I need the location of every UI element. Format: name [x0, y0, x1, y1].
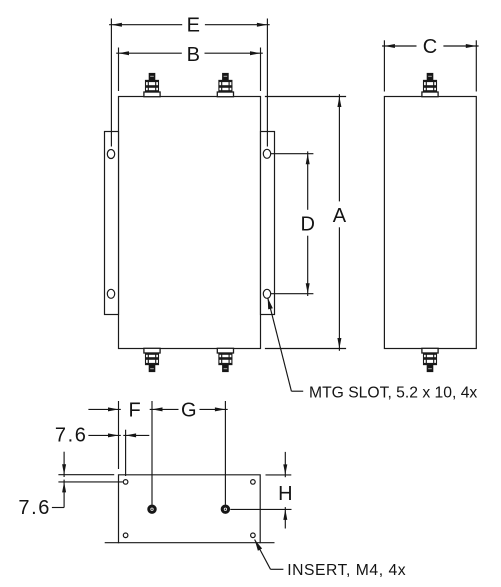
mtg slot top-right — [263, 149, 270, 158]
dimension 7.6 horizontal arrow right — [126, 433, 137, 437]
dimension C line — [382, 45, 416, 47]
dimension A extension line top — [265, 96, 346, 98]
dimension 7.6 horizontal tail left — [88, 434, 120, 436]
dimension B extension line right — [260, 48, 262, 92]
dimension 7.6 vertical extension line bottom (hole centerline) — [58, 481, 123, 483]
insert hole top-left — [123, 480, 128, 485]
mtg slot bottom-right — [263, 289, 270, 298]
dimension E extension line right — [266, 19, 268, 147]
svg-text:INSERT, M4, 4x: INSERT, M4, 4x — [287, 562, 406, 579]
svg-text:B: B — [187, 44, 200, 66]
svg-text:7.6: 7.6 — [18, 497, 51, 519]
mtg slot top-left — [107, 150, 114, 159]
dimension F tail line — [88, 408, 120, 410]
dimension B arrow left — [119, 51, 130, 55]
svg-text:E: E — [187, 15, 200, 37]
bottom view body outline — [119, 475, 261, 543]
dimension G extension line right (stud centerline) — [224, 401, 226, 505]
dimension 7.6 horizontal extension line (hole centerline) — [125, 430, 127, 476]
dimension D extension line top — [271, 153, 314, 155]
dimension D line — [307, 151, 309, 209]
dimension H extension line top — [266, 474, 292, 476]
dimension E arrow right — [257, 23, 268, 27]
dimension E arrow left — [111, 23, 122, 27]
insert hole top-right — [251, 480, 256, 485]
leader INSERT shaft — [255, 540, 271, 570]
dimension H arrow top — [284, 452, 286, 477]
dimension G arrow left — [152, 407, 163, 411]
front view body — [119, 97, 261, 349]
dimension C extension line left — [383, 40, 385, 91]
dimension A extension line bottom — [265, 348, 346, 350]
svg-text:F: F — [128, 399, 140, 421]
dimension 7.6 vertical arrow bottom — [62, 482, 66, 493]
dimension H extension line bottom (stud centerline) — [230, 508, 291, 510]
dimension G arrow right — [215, 407, 226, 411]
dimension F arrow — [108, 407, 119, 411]
left mounting flange — [105, 132, 119, 315]
svg-text:7.6: 7.6 — [55, 425, 88, 447]
dimension B line — [116, 52, 182, 54]
mtg slot bottom-left — [107, 289, 114, 298]
dimension G extension line left (stud centerline) — [151, 401, 153, 505]
dimension C extension line right — [475, 40, 477, 91]
insert hole bottom-left — [123, 533, 128, 538]
right mounting flange — [261, 132, 275, 315]
dimension D extension line bottom — [271, 293, 314, 295]
terminal stud front top-right — [217, 73, 233, 97]
dimension E extension line left — [110, 19, 112, 147]
terminal stud front bottom-right — [217, 348, 233, 372]
terminal stud front top-left — [144, 73, 160, 97]
insert hole bottom-right — [251, 533, 256, 538]
terminal stud end view left — [147, 505, 156, 514]
svg-text:C: C — [423, 36, 437, 58]
dimension A arrow bottom — [337, 338, 341, 349]
dimension F extension line (body edge) — [118, 401, 120, 469]
dimension 7.6 vertical leader elbow — [52, 507, 64, 509]
terminal stud side top — [422, 73, 438, 97]
dimension D arrow bottom — [306, 283, 310, 294]
svg-text:A: A — [333, 205, 347, 227]
dimension 7.6 horizontal tail right — [123, 434, 149, 436]
dimension C arrow right — [466, 44, 477, 48]
dimension G line — [150, 408, 179, 410]
dimension A line — [338, 94, 340, 201]
dimension E line — [109, 24, 182, 26]
dimension D arrow top — [306, 154, 310, 165]
dimension B extension line left — [118, 48, 120, 92]
dimension 7.6 vertical extension line top (body edge) — [58, 474, 114, 476]
terminal stud front bottom-left — [144, 348, 160, 372]
terminal stud side bottom — [422, 348, 438, 372]
dimension B arrow right — [250, 51, 261, 55]
svg-text:D: D — [300, 214, 314, 236]
dimension 7.6 vertical arrow top — [63, 452, 65, 477]
svg-text:MTG SLOT, 5.2 x 10, 4x: MTG SLOT, 5.2 x 10, 4x — [309, 384, 477, 401]
terminal stud end view right — [221, 505, 230, 514]
leader MTG SLOT shaft — [268, 298, 292, 392]
dimension H arrow bottom — [283, 509, 287, 520]
bottom view mounting plane edge — [105, 542, 275, 544]
leader MTG SLOT arrowhead — [268, 298, 273, 310]
side view body — [384, 97, 476, 349]
dimension A arrow top — [337, 97, 341, 108]
svg-text:G: G — [181, 399, 197, 421]
dimension C arrow left — [384, 44, 395, 48]
leader INSERT arrowhead — [255, 540, 263, 551]
dimension 7.6 horizontal arrow left — [108, 433, 119, 437]
svg-text:H: H — [278, 483, 292, 505]
